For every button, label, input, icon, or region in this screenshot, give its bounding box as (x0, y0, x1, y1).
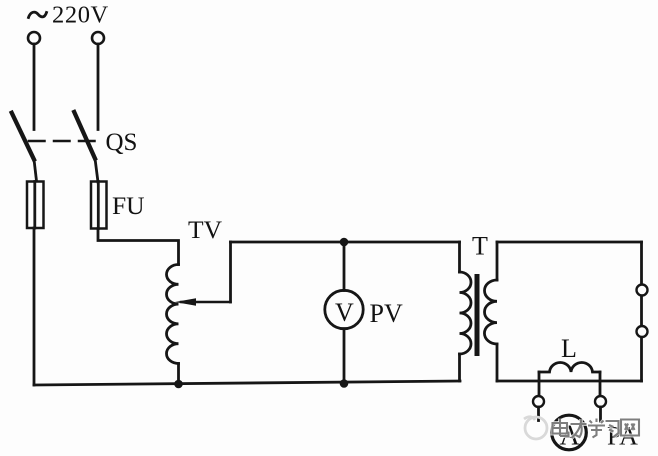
transformer T secondary wire bottom (496, 344, 499, 381)
wire FU2 to TV top (98, 229, 179, 265)
terminal PA1 (533, 396, 544, 407)
terminal PA2 (595, 396, 606, 407)
wire left column down (33, 228, 36, 385)
wire right side (640, 242, 643, 381)
svg-text:FU: FU (112, 191, 145, 220)
transformer T core (475, 274, 480, 356)
transformer T primary wire top (458, 242, 461, 272)
wire PV top (343, 242, 346, 291)
wire L left stub (538, 372, 541, 396)
inductor L (539, 363, 600, 372)
wire PA2 stub (599, 407, 602, 421)
switch QS post 2 (95, 159, 98, 183)
wire PA1 stub (537, 407, 540, 421)
svg-text:PV: PV (370, 299, 403, 328)
switch QS blade 1 (12, 113, 34, 160)
svg-text:QS: QS (106, 129, 138, 156)
TV wiper arrow (175, 298, 231, 306)
terminal L1 (28, 32, 40, 44)
terminal L2 (92, 32, 104, 44)
fuse FU1 (27, 182, 44, 229)
svg-text:220V: 220V (52, 1, 109, 28)
autotransformer TV coil (166, 265, 178, 364)
wire secondary bottom (497, 380, 642, 383)
node junction top PV (340, 238, 349, 247)
wire L right stub (599, 372, 602, 396)
transformer T secondary wire top (496, 242, 499, 280)
wire main top (231, 241, 460, 244)
svg-text:L: L (561, 334, 577, 363)
transformer T primary coil (460, 272, 472, 354)
switch QS post 1 (34, 160, 37, 182)
voltmeter PV (325, 290, 363, 328)
terminal out 1 (637, 285, 648, 296)
wire main bottom (34, 381, 460, 385)
transformer T secondary coil (484, 280, 497, 344)
ammeter PA (552, 415, 587, 450)
watermark logo (524, 417, 547, 439)
switch QS dashed link (29, 140, 95, 143)
transformer T primary wire bottom (458, 354, 461, 381)
wire wiper riser (229, 242, 232, 302)
wire L2 down (97, 44, 100, 130)
terminal out 2 (637, 326, 648, 337)
wire PV bottom (343, 329, 346, 384)
node junction bottom TV (174, 380, 183, 389)
wire TV coil bottom (177, 364, 180, 385)
wire secondary top (497, 241, 642, 244)
svg-text:TV: TV (188, 215, 223, 244)
node junction bottom PV (340, 379, 349, 388)
switch QS blade 2 (74, 112, 95, 159)
svg-text:V: V (335, 298, 354, 327)
wire L1 down (33, 44, 36, 130)
watermark text 电力学习网 (553, 419, 640, 439)
fuse FU2 (91, 182, 107, 229)
label ~220V (29, 1, 109, 28)
svg-text:T: T (472, 232, 488, 261)
